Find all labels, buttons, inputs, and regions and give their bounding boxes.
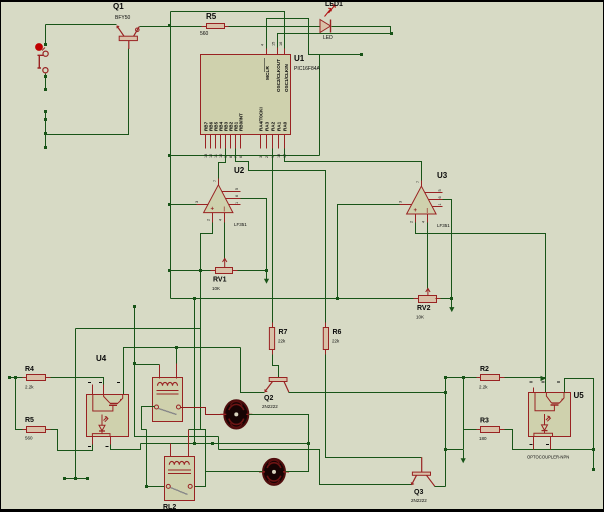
LED D1 symbol LED1 (320, 5, 335, 33)
U5 top pin number ticks (530, 381, 561, 383)
svg-text:5: 5 (438, 189, 442, 191)
svg-text:2: 2 (207, 219, 211, 221)
svg-text:10K: 10K (416, 315, 424, 320)
svg-text:15: 15 (272, 42, 276, 46)
svg-text:1: 1 (438, 203, 442, 205)
resistor R2 body (481, 375, 500, 381)
U5 top pin stub (533, 388, 535, 393)
wire RV1 rail to RL2 coil (189, 329, 201, 430)
relay RL2 coil pin left (170, 444, 172, 457)
node loop bottom terminal (44, 146, 47, 149)
svg-text:6: 6 (438, 196, 442, 198)
junction rail A bottom (145, 485, 148, 488)
svg-text:U2: U2 (234, 166, 245, 175)
node right rail bottom terminal (592, 468, 595, 471)
junction U3 input rail (336, 297, 339, 300)
U1 bottom pin RA3 pin 2 (266, 135, 268, 149)
wire U3 plus input rail (338, 205, 400, 299)
wire R3 right to U5 bottom (500, 430, 594, 450)
wire rail A down to RL2 contact (146, 430, 148, 487)
U2 bottom stub pin 4 (224, 213, 226, 223)
R5 top leads (202, 26, 207, 28)
wire R5 to LED1 anode (225, 26, 321, 28)
wire left loop segment (45, 112, 47, 149)
U5 inner LED (534, 414, 553, 436)
svg-text:11: 11 (214, 154, 218, 158)
svg-text:7: 7 (416, 181, 420, 183)
relay RL2 blade (171, 488, 188, 495)
junction RV1 right output (265, 269, 268, 272)
svg-text:180: 180 (479, 436, 487, 441)
relay RL1 coil pin right (176, 364, 178, 379)
U4 bottom pin number ticks (88, 446, 109, 448)
U3 left input stub pin 3 (400, 204, 412, 206)
svg-text:OPTOCOUPLER-NPN: OPTOCOUPLER-NPN (527, 455, 569, 460)
relay RL2 body (165, 457, 195, 501)
ground at RV2 right (449, 299, 454, 313)
optocoupler U4 body (87, 395, 129, 437)
svg-text:U3: U3 (437, 171, 448, 180)
wire Q1 collector loop (46, 49, 129, 135)
svg-text:RA3: RA3 (265, 121, 270, 131)
wire RA0 to U3 top (285, 149, 422, 181)
RV1 leads (211, 270, 216, 272)
wire WB to Q3 emitter (219, 450, 412, 485)
U5 bottom pin number ticks (530, 444, 550, 446)
relay RL1 body (153, 378, 183, 422)
U4 top pin 1 stub (92, 385, 94, 395)
wire collector junction east (446, 449, 464, 451)
U1 top pin MCLR pin 4 (266, 49, 268, 55)
U5 inner phototransistor (535, 393, 564, 411)
svg-text:3: 3 (399, 201, 403, 203)
resistor R5 (top) (207, 24, 225, 29)
relay RL1 blade (159, 409, 177, 415)
wire U3 pin4 to RV2 wiper (427, 223, 429, 289)
U1 bottom pin RB1 pin 7 (235, 135, 237, 149)
U5 collector loop (565, 379, 594, 470)
svg-text:R5: R5 (206, 12, 217, 21)
svg-text:12: 12 (209, 154, 213, 158)
junction R2 rail (462, 376, 465, 379)
junction Q2 collector (444, 391, 447, 394)
potentiometer RV2 body (419, 296, 437, 303)
resistor R4 body (27, 375, 46, 381)
wire button bottom stub (45, 74, 47, 91)
junction RV1 left pin (199, 269, 202, 272)
op-amp U3 LF351 triangle (407, 186, 437, 214)
svg-text:R6: R6 (333, 329, 342, 336)
R7 leads (272, 323, 274, 328)
relay RL2 coil pin right (188, 430, 190, 457)
junction WA descent (211, 442, 214, 445)
wire relay rail down (135, 365, 147, 437)
svg-text:PIC16F84A: PIC16F84A (294, 66, 321, 72)
motor M1 (220, 400, 252, 428)
relay RL2 contact right (188, 484, 192, 488)
node R4 left terminal (8, 376, 11, 379)
svg-text:10K: 10K (212, 286, 220, 291)
relay RL1 coil (157, 382, 179, 394)
svg-text:Q3: Q3 (414, 489, 423, 496)
U3 bottom stub pin 4 (427, 215, 429, 223)
svg-text:Q2: Q2 (264, 395, 273, 402)
wire MCLR net branch to mid rail (319, 55, 321, 156)
svg-text:4: 4 (261, 44, 265, 46)
transistor Q2 2N2222 (265, 378, 289, 393)
wire motor2 left feed (189, 430, 206, 487)
node end bar right (86, 477, 89, 480)
U4 inner LED (92, 415, 110, 437)
svg-text:2.2k: 2.2k (479, 385, 488, 390)
svg-text:560: 560 (200, 31, 209, 37)
svg-text:+: + (414, 208, 418, 214)
U3 bottom stub pin 2 (415, 215, 417, 223)
U1 bottom pin RB4 pin 10 (220, 135, 222, 149)
node loop top (44, 110, 47, 113)
U5 top right pin stub (564, 388, 566, 393)
svg-text:U4: U4 (96, 354, 107, 363)
U1 bottom pin RA1 pin 18 (278, 135, 280, 149)
svg-text:OSC1/CLKIN: OSC1/CLKIN (284, 63, 289, 92)
wire RV2 right (437, 298, 452, 300)
wire U3 pin2 to U5 net (416, 223, 546, 393)
RV2 leads (414, 298, 419, 300)
junction U5 bottom right rail (592, 448, 595, 451)
svg-text:U1: U1 (294, 54, 305, 63)
svg-text:9: 9 (224, 156, 228, 158)
junction R4-R5 rail (14, 376, 17, 379)
resistor R5b body (27, 427, 46, 433)
svg-text:22k: 22k (332, 339, 340, 344)
svg-text:2N2222: 2N2222 (411, 498, 427, 503)
relay RL1 contact right (177, 405, 181, 409)
R2 leads (477, 377, 481, 379)
U4 bottom pin emitter (110, 437, 112, 445)
junction Q3 collector rail (444, 448, 447, 451)
svg-text:4: 4 (219, 219, 223, 221)
wire rail x194 down to relay net (194, 299, 196, 444)
U1 bottom pin RB0/INT pin 6 (240, 135, 242, 149)
junction motor rail emitter net (307, 442, 310, 445)
ground at R2 rail (461, 450, 466, 464)
potentiometer RV1 body (216, 268, 233, 274)
wire R4-R5 left rail (16, 378, 27, 430)
resistor R6 body (323, 328, 328, 350)
svg-text:16: 16 (279, 42, 283, 46)
node loop mid (44, 118, 47, 121)
wire top rail to OSC1 pin16 (171, 12, 285, 49)
wire R5b to U4 cathode (46, 430, 93, 451)
U3 right stub pin 5 (425, 192, 443, 194)
wire relay coil rail upper stub (134, 307, 136, 365)
wire left rail (170, 12, 172, 299)
wire RV1 left (171, 270, 216, 272)
wire RA2 to R7 (272, 149, 274, 328)
wire descent x218 (218, 437, 220, 450)
svg-text:R2: R2 (480, 366, 489, 373)
U2 bottom stub pin 2 (212, 213, 214, 223)
U3 output stub pin 6 (429, 199, 443, 201)
U1 bottom pin RB2 pin 8 (230, 135, 232, 149)
svg-text:R4: R4 (25, 366, 34, 373)
svg-text:22k: 22k (278, 339, 286, 344)
svg-text:LED1: LED1 (325, 1, 343, 8)
node button-bottom terminal (44, 88, 47, 91)
wire relay coil left feed (135, 364, 160, 366)
svg-text:LED: LED (323, 35, 333, 41)
wire left rail to U2 plus input (171, 204, 197, 206)
wire U2 pin2 to RV1 left (201, 223, 213, 271)
wire V+ rail to Q2 emitter (241, 348, 265, 393)
junction left rail RV1 (168, 269, 171, 272)
svg-text:RA4/T0CKI: RA4/T0CKI (259, 107, 264, 131)
wire RB1 to R6 jog (236, 149, 326, 328)
svg-text:BFY50: BFY50 (115, 15, 131, 21)
wire R3 left (464, 429, 481, 431)
wire R7 top lead (272, 327, 274, 329)
wire U2 pin4 to RV1 wiper (224, 223, 226, 259)
svg-text:6: 6 (235, 195, 239, 197)
transistor Q1 (117, 26, 139, 49)
svg-text:1: 1 (235, 202, 239, 204)
svg-text:7: 7 (213, 180, 217, 182)
svg-text:8: 8 (229, 156, 233, 158)
wire relay1 coil right riser (176, 348, 178, 364)
svg-text:Q1: Q1 (113, 2, 124, 11)
svg-text:R3: R3 (480, 418, 489, 425)
U1 top pin OSC1 pin 16 (284, 49, 286, 55)
U1 bottom pin RB3 pin 9 (225, 135, 227, 149)
junction left rail R5 wire (168, 24, 171, 27)
wire Q3 collector to R2 rail (435, 486, 446, 488)
wire button top to Q1 base (46, 24, 117, 26)
svg-text:RA2: RA2 (271, 121, 276, 131)
wire relay1 right contact to motor1 (181, 408, 225, 415)
junction loop corner (44, 132, 47, 135)
wire R2 left (446, 377, 481, 379)
wire R4 left (10, 377, 27, 379)
svg-text:5: 5 (235, 188, 239, 190)
potentiometer RV2 wiper arrow (426, 288, 430, 296)
wire motor1 right rail (249, 415, 309, 472)
wire OSC2 pin15 to LED net (278, 34, 391, 48)
svg-text:6: 6 (239, 156, 243, 158)
U5 bottom pin left (533, 437, 535, 450)
svg-text:RA1: RA1 (277, 121, 282, 131)
svg-text:R5: R5 (25, 417, 34, 424)
svg-text:MCLR: MCLR (265, 66, 271, 80)
wire R2 right to U5 net (500, 377, 546, 379)
wire RV1-left rail down to west run (76, 271, 201, 329)
svg-text:2: 2 (265, 156, 269, 158)
svg-text:4: 4 (422, 221, 426, 223)
relay RL1 coil pin left (159, 365, 161, 379)
junction LED-OSC2 (390, 32, 393, 35)
junction RV2 right output (450, 297, 453, 300)
wire motor2 left (206, 471, 263, 473)
potentiometer RV1 wiper arrow (223, 258, 227, 268)
U1 bottom pin RB5 pin 11 (215, 135, 217, 149)
U1 bottom pin RA0 pin 17 (284, 135, 286, 149)
U2 apex pin stub (218, 179, 220, 186)
resistor R3 body (481, 427, 500, 433)
transistor Q3 2N2222 (411, 457, 435, 486)
wire U2 output to RV1 right rail (241, 199, 267, 271)
motor M2 (259, 459, 289, 485)
relay RL2 coil (168, 461, 191, 473)
relay RL1 contact left (155, 405, 159, 409)
R4 leads (23, 377, 27, 379)
wire Q2 collector east (289, 392, 446, 394)
junction relay coil rail (133, 362, 136, 365)
node rail stub top terminal (133, 305, 136, 308)
svg-text:560: 560 (25, 436, 33, 441)
junction WA rail194 (193, 442, 196, 445)
svg-text:LF351: LF351 (234, 222, 247, 227)
wire to RL2 left contact (147, 486, 168, 488)
svg-text:+: + (211, 207, 215, 213)
U3 right stub pin 1 (433, 206, 443, 208)
U1 bottom pin RA2 pin 1 (272, 135, 274, 149)
U4 inner phototransistor (93, 394, 123, 411)
wire R2 rail down (463, 378, 465, 450)
svg-text:2N2222: 2N2222 (262, 404, 278, 409)
wire emitter net WA (141, 443, 309, 445)
wire west rail down to end bar (75, 329, 77, 479)
wire RB3 to U2 V+ jog (219, 149, 226, 179)
U1 bottom pin RA4/T0CKI pin 3 (260, 135, 262, 149)
junction left rail mid (168, 154, 171, 157)
U1 top pin OSC2 pin 15 (277, 48, 279, 55)
resistor R7 body (269, 328, 274, 350)
svg-text:RB0/INT: RB0/INT (239, 113, 244, 131)
svg-text:7: 7 (234, 156, 238, 158)
relay RL2 contact left (166, 484, 170, 488)
node end bar left (63, 477, 66, 480)
wire R7 bottom to Q2 base (273, 350, 279, 378)
wire button top stub (45, 25, 47, 45)
U4 top pin anode (103, 385, 105, 395)
wire RV1 right (233, 270, 267, 272)
wire long supply net y298 (171, 298, 419, 300)
wire LED1 cathode to OSC2 net (332, 27, 391, 34)
wire end bar (65, 478, 88, 480)
junction mid rail down (193, 297, 196, 300)
wire collector rail (445, 379, 447, 487)
svg-text:3: 3 (259, 156, 263, 158)
U1 bottom pin RB6 pin 12 (210, 135, 212, 149)
wire U4 collector rail (124, 348, 241, 395)
U5 bottom pin emitter (550, 437, 552, 450)
svg-text:2: 2 (410, 221, 414, 223)
svg-text:RV1: RV1 (213, 277, 227, 284)
wire MCLR net (267, 19, 361, 55)
optocoupler U5 body (529, 393, 571, 437)
svg-text:RA0: RA0 (283, 121, 288, 131)
node arrow marker R2 to U5 net (541, 376, 547, 381)
node R2 left terminal (444, 376, 447, 379)
U2 left input stub pin 3 (197, 204, 209, 206)
U3 apex pin stub (421, 181, 423, 187)
svg-text:10: 10 (219, 154, 223, 158)
svg-text:R7: R7 (279, 329, 288, 336)
wire Q1 emitter to R5 (140, 26, 207, 28)
svg-text:18: 18 (277, 154, 281, 158)
U4 bottom pin cathode (92, 437, 94, 445)
wire R6 bottom rail to Q3 base (326, 350, 422, 458)
junction relay coil V+ (175, 346, 178, 349)
IC U1 PIC16F84A body (201, 55, 291, 135)
op-amp U2 LF351 triangle (204, 185, 233, 213)
wire U4 emitter to relay net (111, 444, 141, 450)
junction end bar (74, 477, 77, 480)
U2 right stub pin 5 (222, 191, 241, 193)
svg-text:OSC2/CLKOUT: OSC2/CLKOUT (276, 59, 281, 92)
svg-text:U5: U5 (574, 391, 585, 400)
push button SW1 (36, 44, 49, 73)
svg-text:2.2k: 2.2k (25, 385, 34, 390)
svg-text:LF351: LF351 (437, 223, 450, 228)
U2 output stub pin 6 (226, 198, 241, 200)
R5b leads (23, 429, 27, 431)
wire R4 to U4 anode (46, 378, 104, 385)
wire mid horizontal net (171, 155, 320, 157)
R6 leads (325, 323, 327, 328)
U4 top pin number ticks (88, 382, 120, 384)
wire U3 output to RV2 rail (443, 200, 452, 299)
svg-text:RV2: RV2 (417, 305, 431, 312)
junction left rail U2 input (168, 203, 171, 206)
node MCLR net terminal (360, 53, 363, 56)
ground at RV1 right (264, 270, 269, 284)
U1 bottom pin RB7 pin 13 (205, 135, 207, 149)
R3 leads (477, 429, 481, 431)
svg-text:3: 3 (195, 201, 199, 203)
U2 right stub pin 1 (229, 204, 241, 206)
wire relay1 left contact down (142, 407, 155, 430)
svg-text:13: 13 (204, 154, 208, 158)
wire railA to descent horizontal (147, 436, 219, 438)
